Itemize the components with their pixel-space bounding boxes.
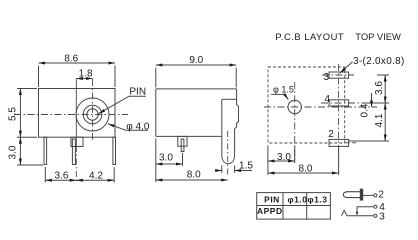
svg-text:3: 3: [379, 211, 385, 222]
svg-text:2: 2: [328, 129, 334, 140]
svg-text:2: 2: [378, 190, 384, 201]
svg-text:φ1.3: φ1.3: [308, 194, 328, 204]
svg-text:3.0: 3.0: [8, 145, 19, 159]
svg-text:3: 3: [324, 72, 330, 83]
svg-text:9.0: 9.0: [189, 55, 203, 66]
svg-text:PIN: PIN: [129, 86, 146, 97]
svg-text:1.5: 1.5: [239, 161, 253, 172]
svg-text:8.0: 8.0: [299, 164, 313, 175]
svg-text:8.6: 8.6: [64, 54, 78, 65]
svg-text:φ1.0: φ1.0: [288, 194, 308, 204]
svg-text:5.5: 5.5: [8, 107, 19, 121]
svg-text:3.0: 3.0: [159, 153, 173, 164]
svg-text:4: 4: [325, 94, 331, 105]
svg-text:8.0: 8.0: [187, 170, 201, 181]
svg-text:3.6: 3.6: [374, 81, 385, 95]
svg-text:P.C.B LAYOUT: P.C.B LAYOUT: [275, 31, 344, 42]
svg-text:φ 4.0: φ 4.0: [126, 121, 150, 132]
svg-text:APPD: APPD: [257, 206, 283, 216]
svg-text:3-(2.0x0.8): 3-(2.0x0.8): [353, 56, 405, 67]
svg-text:1.8: 1.8: [79, 68, 93, 79]
svg-text:φ 1.5: φ 1.5: [273, 84, 294, 94]
svg-text:0.4: 0.4: [360, 103, 371, 117]
svg-text:3.0: 3.0: [277, 152, 291, 163]
svg-text:4.1: 4.1: [374, 113, 385, 127]
svg-text:3.6: 3.6: [55, 170, 69, 181]
svg-text:4.2: 4.2: [89, 170, 103, 181]
svg-text:TOP VIEW: TOP VIEW: [355, 31, 401, 42]
svg-text:PIN: PIN: [264, 194, 280, 204]
